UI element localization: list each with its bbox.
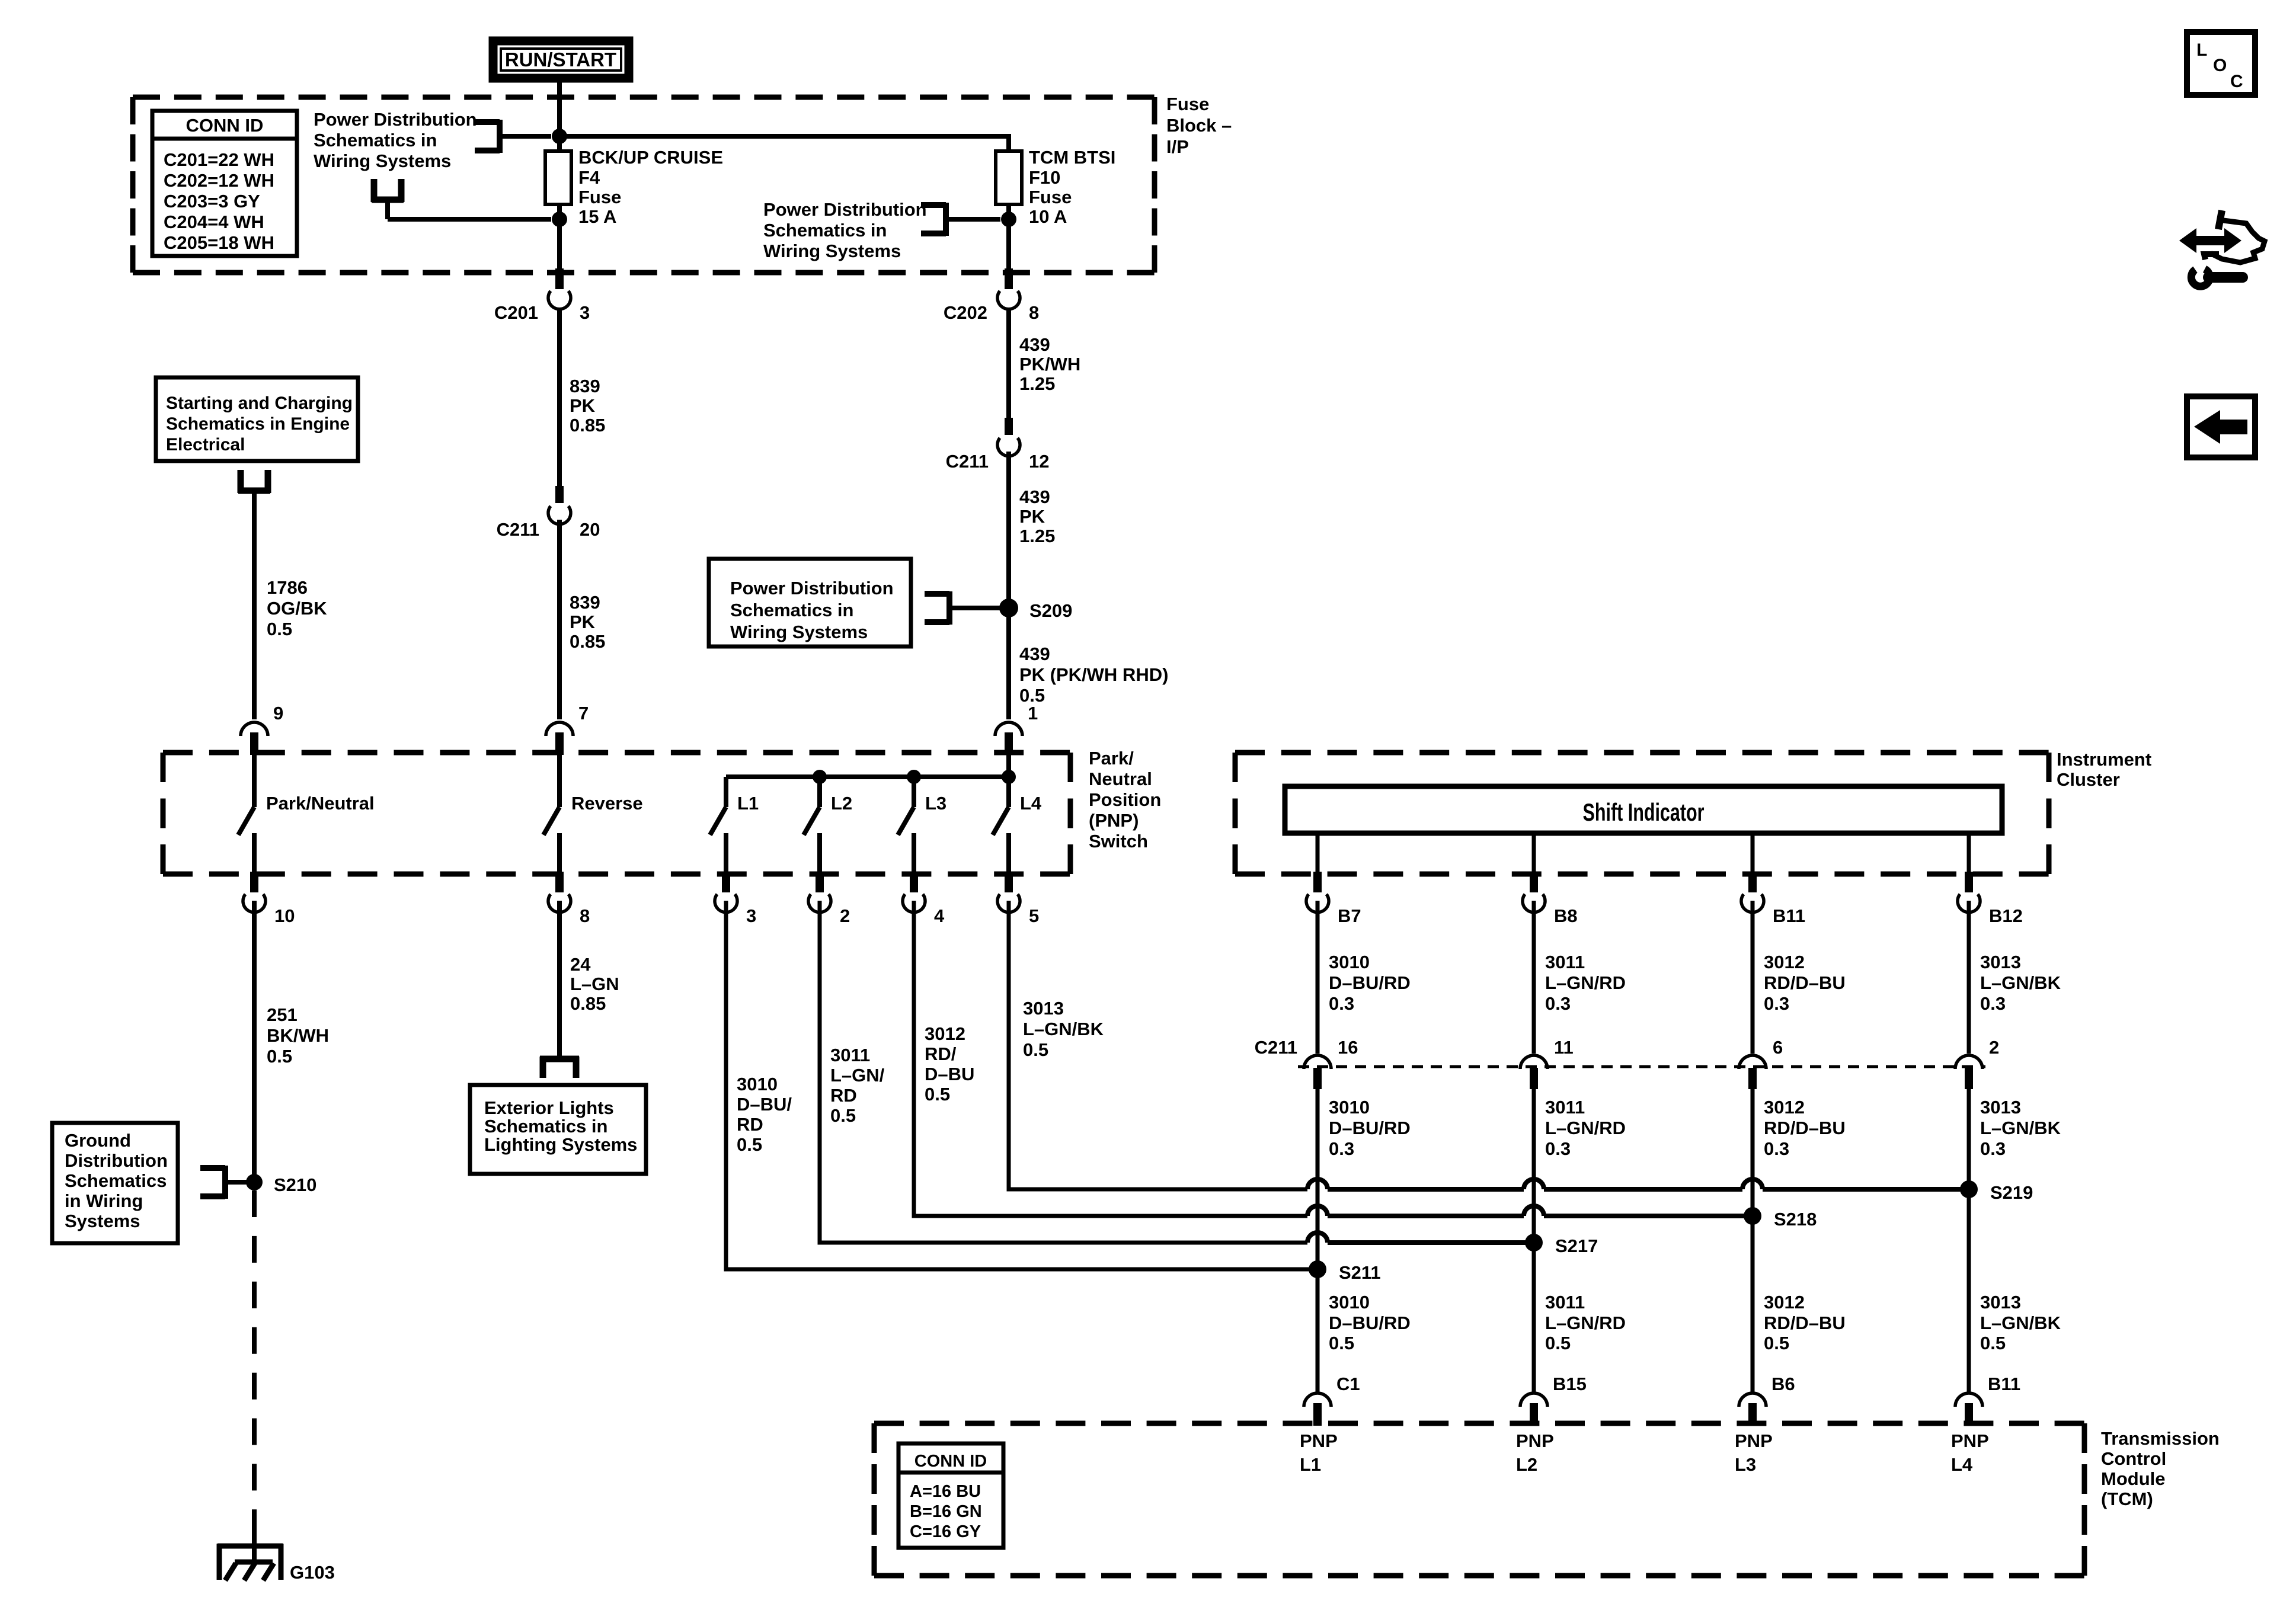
connector B12 [1958,872,2023,926]
splice S218 [1744,1207,1817,1230]
connector C211 pin 2 [1955,1037,1999,1089]
svg-text:in Wiring: in Wiring [65,1190,143,1211]
node junction fuse F10 bottom [1001,212,1016,227]
fuse block label [1166,94,1232,157]
svg-text:439: 439 [1019,334,1050,355]
svg-text:G103: G103 [290,1562,335,1583]
svg-text:L1: L1 [1300,1454,1321,1475]
svg-text:0.3: 0.3 [1545,1138,1571,1159]
svg-text:L–GN/RD: L–GN/RD [1545,972,1626,993]
navigation box back arrow [2187,396,2255,457]
wire L4 feed bus [726,755,1009,777]
svg-text:A=16 BU: A=16 BU [910,1482,981,1501]
svg-text:B15: B15 [1553,1374,1587,1394]
svg-text:3013: 3013 [1980,952,2021,972]
node junction fuse F4 bottom [552,212,567,227]
wire into fuse F10 [1006,134,1011,153]
svg-text:C=16 GY: C=16 GY [910,1522,981,1541]
svg-text:S218: S218 [1774,1209,1817,1230]
power feed box RUN/START [493,41,629,78]
switch L1 [710,777,759,872]
ground G103 [218,1531,335,1583]
wire 439 PK [1009,452,1055,608]
svg-text:7: 7 [578,703,589,724]
svg-text:Schematics in Engine: Schematics in Engine [166,414,350,434]
wire shift indicator to B8 [1532,833,1536,872]
connector pin 9 into PNP switch [241,703,283,755]
TCM pin label PNP L4 [1951,1430,1989,1475]
svg-text:L: L [2196,40,2207,60]
off-page reference box Ground Distribution [52,1123,225,1243]
wire fuse F4 to node [557,204,562,220]
svg-text:B6: B6 [1771,1374,1795,1394]
svg-text:L–GN/BK: L–GN/BK [1980,972,2061,993]
svg-text:3011: 3011 [830,1045,870,1065]
svg-text:Schematics in: Schematics in [314,130,437,151]
wire 3010 lower label [1329,1292,1411,1353]
node junction fuse F4 top [552,129,567,144]
svg-text:8: 8 [580,905,590,926]
svg-text:(PNP): (PNP) [1089,810,1139,831]
svg-text:2: 2 [840,905,850,926]
svg-text:L1: L1 [737,793,759,814]
svg-text:B12: B12 [1989,905,2023,926]
svg-text:C201=22 WH: C201=22 WH [164,149,274,170]
wire 3013 upper label [1969,901,2061,1054]
svg-text:Power Distribution: Power Distribution [763,199,927,220]
svg-text:0.3: 0.3 [1980,1138,2006,1159]
node L3 bus [907,770,921,784]
svg-text:Systems: Systems [65,1211,140,1231]
svg-text:S219: S219 [1990,1182,2033,1203]
wire shift indicator to B7 [1316,833,1320,872]
svg-text:PK: PK [570,612,596,632]
svg-text:RD: RD [737,1114,763,1135]
TCM label [2101,1428,2220,1509]
PNP switch label [1089,748,1161,852]
svg-text:0.5: 0.5 [830,1105,856,1126]
svg-text:PNP: PNP [1516,1430,1554,1451]
svg-text:16: 16 [1338,1037,1358,1058]
icon vehicle with arrows and wrench [2179,210,2265,286]
svg-text:8: 8 [1029,302,1039,323]
wire 3013 lower label [1980,1292,2061,1353]
wire 3011 upper label [1534,901,1626,1054]
svg-text:RD/D–BU: RD/D–BU [1764,1118,1846,1138]
wire bracket to splice S210 [225,1180,254,1185]
svg-text:L–GN/BK: L–GN/BK [1980,1118,2061,1138]
svg-text:0.3: 0.3 [1329,1138,1354,1159]
connector C211 pin 20 [497,486,600,540]
svg-text:Power Distribution: Power Distribution [314,109,477,130]
svg-text:3013: 3013 [1980,1292,2021,1313]
transmission control module dashed box [874,1423,2084,1576]
wire 439 PK/WH [1009,308,1080,419]
connector B11 [1741,872,1805,926]
svg-text:3012: 3012 [1764,1097,1805,1118]
connector C211 dashed line [1298,1065,1985,1068]
svg-text:PNP: PNP [1300,1430,1338,1451]
wire L2 to S217 [820,901,1526,1243]
svg-text:Wiring Systems: Wiring Systems [314,151,451,171]
reference box LOC [2187,32,2255,95]
svg-text:Reverse: Reverse [571,793,643,814]
svg-text:3013: 3013 [1980,1097,2021,1118]
svg-text:9: 9 [273,703,283,724]
svg-text:Distribution: Distribution [65,1150,168,1171]
svg-text:0.3: 0.3 [1764,1138,1789,1159]
wire into fuse F4 [557,134,562,153]
svg-text:0.5: 0.5 [267,1046,292,1067]
connector B15 [1520,1374,1587,1426]
svg-text:Power Distribution: Power Distribution [730,578,894,598]
svg-text:BCK/UP CRUISE: BCK/UP CRUISE [578,147,723,168]
svg-text:C211: C211 [946,451,989,472]
svg-text:PK: PK [570,395,596,416]
wire bracket to splice S209 [949,606,1000,610]
svg-text:L–GN/: L–GN/ [830,1065,885,1086]
svg-text:3010: 3010 [1329,1292,1370,1313]
connector pin 7 into PNP switch [546,703,589,755]
svg-text:O: O [2213,56,2227,75]
svg-text:Wiring Systems: Wiring Systems [730,622,868,642]
svg-text:I/P: I/P [1166,136,1189,157]
svg-text:D–BU/RD: D–BU/RD [1329,1313,1411,1333]
svg-text:3011: 3011 [1545,952,1585,972]
svg-text:0.3: 0.3 [1545,993,1571,1014]
splice S219 [1960,1180,2033,1203]
connector C1 [1304,1374,1360,1426]
svg-text:6: 6 [1773,1037,1783,1058]
svg-text:10 A: 10 A [1029,206,1067,227]
svg-text:L4: L4 [1020,793,1042,814]
svg-text:0.5: 0.5 [1545,1333,1571,1353]
svg-text:D–BU/: D–BU/ [737,1094,792,1115]
svg-text:CONN ID: CONN ID [186,115,264,136]
svg-text:B11: B11 [1773,905,1805,926]
svg-text:Module: Module [2101,1468,2166,1489]
off-page reference Exterior Lights [470,1057,646,1174]
wire 3012 to S218 [1753,1089,1846,1394]
TCM pin label PNP L2 [1516,1430,1554,1475]
svg-text:839: 839 [570,592,600,613]
connector pin 5 [997,872,1039,926]
svg-text:L–GN/BK: L–GN/BK [1980,1313,2061,1333]
svg-text:RD/: RD/ [925,1044,957,1064]
svg-text:3: 3 [746,905,756,926]
connector C211 pin 11 [1520,1037,1574,1089]
svg-text:0.3: 0.3 [1980,993,2006,1014]
svg-text:S211: S211 [1339,1262,1381,1283]
wire 3011 lower label [1545,1292,1626,1353]
svg-text:RD: RD [830,1085,857,1106]
svg-text:PK (PK/WH RHD): PK (PK/WH RHD) [1019,664,1168,685]
svg-text:1: 1 [1028,703,1038,724]
node L4 bus [1002,770,1016,784]
wire F10 to connector C202 [1006,219,1011,270]
svg-text:5: 5 [1029,905,1039,926]
svg-text:Starting and Charging: Starting and Charging [166,393,353,413]
connector pin 3 [715,872,756,926]
svg-text:L–GN: L–GN [570,974,619,994]
svg-text:C203=3 GY: C203=3 GY [164,191,260,212]
svg-text:3012: 3012 [1764,1292,1805,1313]
wire bracket down-right to F4 node [388,200,551,219]
svg-text:L–GN/RD: L–GN/RD [1545,1313,1626,1333]
splice S211 [1309,1260,1381,1283]
wire 3010 to S211 [1318,1089,1411,1394]
svg-text:PK/WH: PK/WH [1019,354,1080,375]
svg-text:0.85: 0.85 [570,631,605,652]
svg-text:BK/WH: BK/WH [267,1025,329,1046]
svg-text:0.5: 0.5 [1329,1333,1354,1353]
wire 1786 OG/BK [254,491,327,719]
wire shift indicator to B11 [1751,833,1755,872]
wire 839 PK lower [559,520,605,719]
connector pin 2 [808,872,850,926]
svg-text:L3: L3 [1735,1454,1756,1475]
wire 3012 upper label [1753,901,1846,1054]
svg-text:C1: C1 [1336,1374,1360,1394]
svg-text:S209: S209 [1029,600,1072,621]
svg-text:15 A: 15 A [578,206,616,227]
wire L3 to S218 [914,901,1744,1216]
wire bracket to F10 node [946,217,1000,222]
svg-text:B8: B8 [1554,905,1578,926]
wire shift indicator to B12 [1967,833,1971,872]
wire RUN/START down [557,81,562,136]
switch Reverse [543,755,643,872]
svg-text:RD/D–BU: RD/D–BU [1764,972,1846,993]
connector C211 pin 12 [946,418,1050,472]
svg-text:L4: L4 [1951,1454,1973,1475]
wire 3012 lower label [1764,1292,1846,1353]
svg-text:Fuse: Fuse [578,187,621,207]
svg-text:24: 24 [570,954,591,975]
svg-text:Schematics: Schematics [65,1170,167,1191]
wire 3013 to S219 [1969,1089,2061,1394]
svg-text:L2: L2 [1516,1454,1537,1475]
fuse F10 [996,147,1115,227]
off-page reference Power Distribution (below text) [372,179,404,202]
splice S210 [246,1174,316,1195]
off-page reference box Power Distribution (S209) [709,559,949,646]
svg-text:L–GN/BK: L–GN/BK [1023,1019,1104,1039]
svg-text:439: 439 [1019,644,1050,664]
svg-text:B11: B11 [1988,1374,2020,1394]
wire 839 PK upper [559,308,605,487]
connector ID table [152,111,297,256]
fuse block I/P dashed box [133,97,1155,273]
svg-text:D–BU: D–BU [925,1064,974,1084]
svg-text:0.5: 0.5 [1980,1333,2006,1353]
switch L3 [898,777,946,872]
svg-text:Cluster: Cluster [2057,769,2120,790]
off-page reference Power Distribution (middle) [763,199,946,261]
connector C211 pin 16 [1255,1037,1358,1089]
svg-text:3011: 3011 [1545,1292,1585,1313]
svg-text:3010: 3010 [1329,952,1370,972]
svg-text:Fuse: Fuse [1029,187,1072,207]
svg-text:439: 439 [1019,486,1050,507]
wire top bus to F10 [559,134,1009,139]
TCM pin label PNP L1 [1300,1430,1338,1475]
wire F4 to connector C201 [557,219,562,270]
svg-text:Neutral: Neutral [1089,769,1152,789]
switch L2 [804,777,852,872]
shift indicator [1285,786,2002,833]
wire bracket to RUN/START node [500,134,551,139]
svg-text:Exterior Lights: Exterior Lights [484,1097,614,1118]
svg-text:F4: F4 [578,167,600,188]
svg-text:Schematics in: Schematics in [763,220,887,241]
svg-text:Position: Position [1089,789,1161,810]
svg-text:4: 4 [934,905,945,926]
dashed ground wire [252,1190,257,1536]
svg-text:3: 3 [580,302,590,323]
connector B6 [1739,1374,1795,1426]
fuse F4 [545,147,723,227]
svg-text:Fuse: Fuse [1166,94,1209,114]
connector B11 TCM [1955,1374,2020,1426]
svg-text:Ground: Ground [65,1130,131,1151]
svg-text:Electrical: Electrical [166,435,245,454]
svg-text:Wiring Systems: Wiring Systems [763,241,901,261]
svg-text:L3: L3 [925,793,946,814]
svg-text:2: 2 [1989,1037,1999,1058]
svg-text:F10: F10 [1029,167,1060,188]
connector pin 10 [243,872,295,926]
svg-text:OG/BK: OG/BK [267,598,327,619]
svg-text:C204=4 WH: C204=4 WH [164,212,264,232]
svg-text:L2: L2 [831,793,852,814]
connector C202 pin 8 [944,268,1039,323]
svg-text:C205=18 WH: C205=18 WH [164,232,274,253]
wire 251 BK/WH [254,901,329,1182]
svg-text:1.25: 1.25 [1019,526,1055,546]
svg-text:RUN/START: RUN/START [505,49,616,71]
svg-text:1.25: 1.25 [1019,373,1055,394]
svg-text:Instrument: Instrument [2057,749,2151,770]
svg-text:10: 10 [274,905,295,926]
svg-text:C201: C201 [494,302,538,323]
svg-text:3011: 3011 [1545,1097,1585,1118]
wire fuse F10 to node [1006,204,1011,220]
svg-text:D–BU/RD: D–BU/RD [1329,1118,1411,1138]
svg-text:Schematics in: Schematics in [730,600,853,620]
svg-text:L–GN/RD: L–GN/RD [1545,1118,1626,1138]
svg-text:Park/: Park/ [1089,748,1134,769]
svg-text:3010: 3010 [737,1074,778,1094]
connector C201 pin 3 [494,268,590,323]
connector pin 8 reverse [548,872,590,926]
svg-text:3012: 3012 [925,1023,965,1044]
svg-text:0.5: 0.5 [925,1084,950,1105]
svg-text:PK: PK [1019,506,1045,527]
splice S209 [999,598,1072,621]
svg-text:20: 20 [580,519,600,540]
switch L4 [993,777,1042,872]
PNP switch dashed box [163,753,1070,874]
svg-text:12: 12 [1029,451,1049,472]
svg-text:C211: C211 [1255,1037,1297,1058]
node L2 bus [813,770,827,784]
connector pin 4 [903,872,945,926]
svg-text:(TCM): (TCM) [2101,1489,2153,1509]
svg-text:Control: Control [2101,1448,2166,1469]
svg-text:S210: S210 [274,1174,316,1195]
svg-text:C: C [2230,72,2243,91]
svg-text:S217: S217 [1555,1235,1598,1256]
svg-text:B7: B7 [1338,905,1361,926]
instrument cluster dashed box [1235,753,2049,874]
svg-text:B=16 GN: B=16 GN [910,1502,982,1521]
svg-text:PNP: PNP [1951,1430,1989,1451]
svg-text:Transmission: Transmission [2101,1428,2220,1449]
svg-text:1786: 1786 [267,577,308,598]
svg-text:Switch: Switch [1089,831,1148,852]
connector B7 [1306,872,1361,926]
svg-text:839: 839 [570,376,600,396]
wire L4 to S219 [1009,901,1961,1189]
svg-text:CONN ID: CONN ID [914,1452,987,1471]
wire 24 L-GN [559,901,619,1056]
svg-text:C202=12 WH: C202=12 WH [164,170,274,191]
svg-text:PNP: PNP [1735,1430,1773,1451]
wire 439 PK PK/WH RHD [1009,608,1168,719]
svg-text:RD/D–BU: RD/D–BU [1764,1313,1846,1333]
svg-text:3013: 3013 [1023,998,1064,1019]
TCM connector ID table [898,1443,1003,1548]
connector pin 1 into PNP switch [995,703,1038,755]
svg-text:Park/Neutral: Park/Neutral [266,793,375,814]
svg-text:Lighting Systems: Lighting Systems [484,1134,637,1155]
svg-text:0.85: 0.85 [570,993,606,1014]
svg-text:Schematics in: Schematics in [484,1116,607,1137]
svg-text:3012: 3012 [1764,952,1805,972]
svg-text:0.3: 0.3 [1764,993,1789,1014]
off-page reference box Starting and Charging [156,377,358,493]
wire L1 to S211 [726,901,1309,1269]
svg-text:D–BU/RD: D–BU/RD [1329,972,1411,993]
svg-text:Shift Indicator: Shift Indicator [1583,798,1705,826]
wire 3010 upper label [1318,901,1411,1054]
svg-text:11: 11 [1554,1037,1574,1058]
svg-text:TCM BTSI: TCM BTSI [1029,147,1115,168]
instrument cluster label [2057,749,2151,790]
svg-text:0.3: 0.3 [1329,993,1354,1014]
TCM pin label PNP L3 [1735,1430,1773,1475]
svg-text:0.5: 0.5 [1764,1333,1789,1353]
svg-text:Block –: Block – [1166,115,1232,136]
svg-text:0.5: 0.5 [267,619,292,639]
svg-text:C202: C202 [944,302,987,323]
svg-text:3010: 3010 [1329,1097,1370,1118]
svg-text:0.85: 0.85 [570,415,605,436]
wire 3011 to S217 [1534,1089,1626,1394]
svg-text:251: 251 [267,1004,298,1025]
svg-text:0.5: 0.5 [737,1134,762,1155]
svg-text:0.5: 0.5 [1023,1039,1048,1060]
connector C211 pin 6 [1739,1037,1783,1089]
svg-text:C211: C211 [497,519,539,540]
connector B8 [1523,872,1578,926]
splice S217 [1525,1234,1598,1256]
switch Park/Neutral [238,755,375,872]
off-page reference Power Distribution (top) [314,109,500,171]
